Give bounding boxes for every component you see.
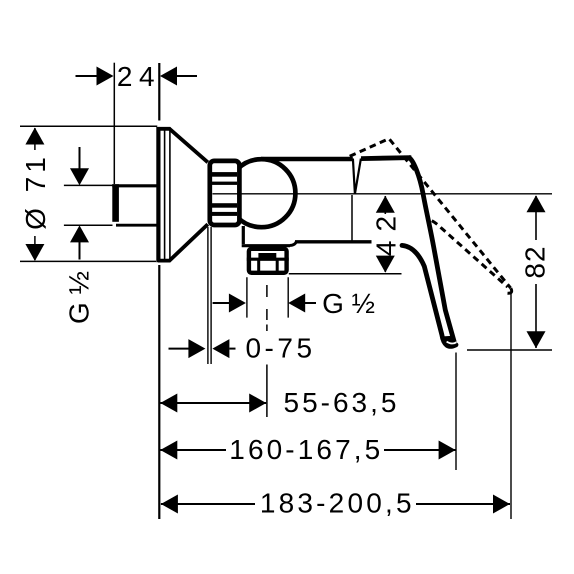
dimension 42 bottom extension line [289, 273, 402, 275]
lever notch [353, 159, 361, 195]
svg-text:Ø 71: Ø 71 [20, 153, 51, 230]
wall reference line [158, 63, 160, 519]
svg-text:24: 24 [117, 61, 161, 92]
svg-text:160-167,5: 160-167,5 [229, 434, 383, 465]
label G1/2 wall connection [63, 271, 94, 324]
dimension G1/2 outlet [213, 288, 375, 319]
dimension 55-63,5 [160, 387, 399, 418]
dimension 160-167,5 [160, 434, 455, 465]
wall connection dimension extension lines [64, 185, 113, 225]
knurled adjustment ring [210, 161, 240, 225]
dimension 24 extension line left [113, 63, 115, 184]
centerline [213, 193, 553, 195]
outlet centerline dashed [266, 285, 268, 417]
dimension 42 [370, 196, 401, 273]
dimension 183-200,5 [161, 488, 510, 519]
outlet nut extension lines [247, 277, 288, 317]
svg-text:G ½: G ½ [63, 271, 94, 324]
wall connection G1/2 dimension arrows [70, 147, 89, 260]
svg-text:0-75: 0-75 [245, 333, 315, 364]
body bottom outline [242, 226, 372, 246]
lever raised position dashed tip [508, 288, 512, 293]
svg-text:82: 82 [520, 245, 551, 278]
lever handle top edge [361, 158, 411, 159]
escutcheon bottom extension line [20, 260, 156, 262]
escutcheon flange face [158, 127, 170, 262]
dimension diameter 71 [20, 128, 51, 262]
body top edge [261, 157, 353, 162]
dimension 0-75 [169, 333, 316, 364]
S-connector block [112, 184, 160, 226]
lever handle trailing edge and tip [402, 245, 456, 347]
dimension 82 bottom extension line [467, 349, 552, 351]
svg-text:55-63,5: 55-63,5 [284, 387, 400, 418]
svg-text:G ½: G ½ [322, 288, 375, 319]
dimension 24 [76, 61, 198, 92]
svg-text:42: 42 [370, 207, 401, 256]
escutcheon top extension line [20, 125, 157, 127]
svg-text:183-200,5: 183-200,5 [260, 488, 415, 519]
dimension 0-75 extension lines [208, 227, 211, 364]
extension line handle tip [455, 353, 457, 471]
lever raised position dashed lower [432, 221, 508, 287]
body lever split line [351, 195, 353, 242]
valve body circle [227, 159, 295, 227]
lever raised position dashed upper [350, 139, 511, 288]
lever handle leading edge [409, 157, 455, 342]
outlet union nut [247, 249, 289, 274]
extension line dashed tip [510, 294, 512, 520]
dimension 82 [520, 195, 551, 348]
escutcheon cone [158, 129, 208, 261]
